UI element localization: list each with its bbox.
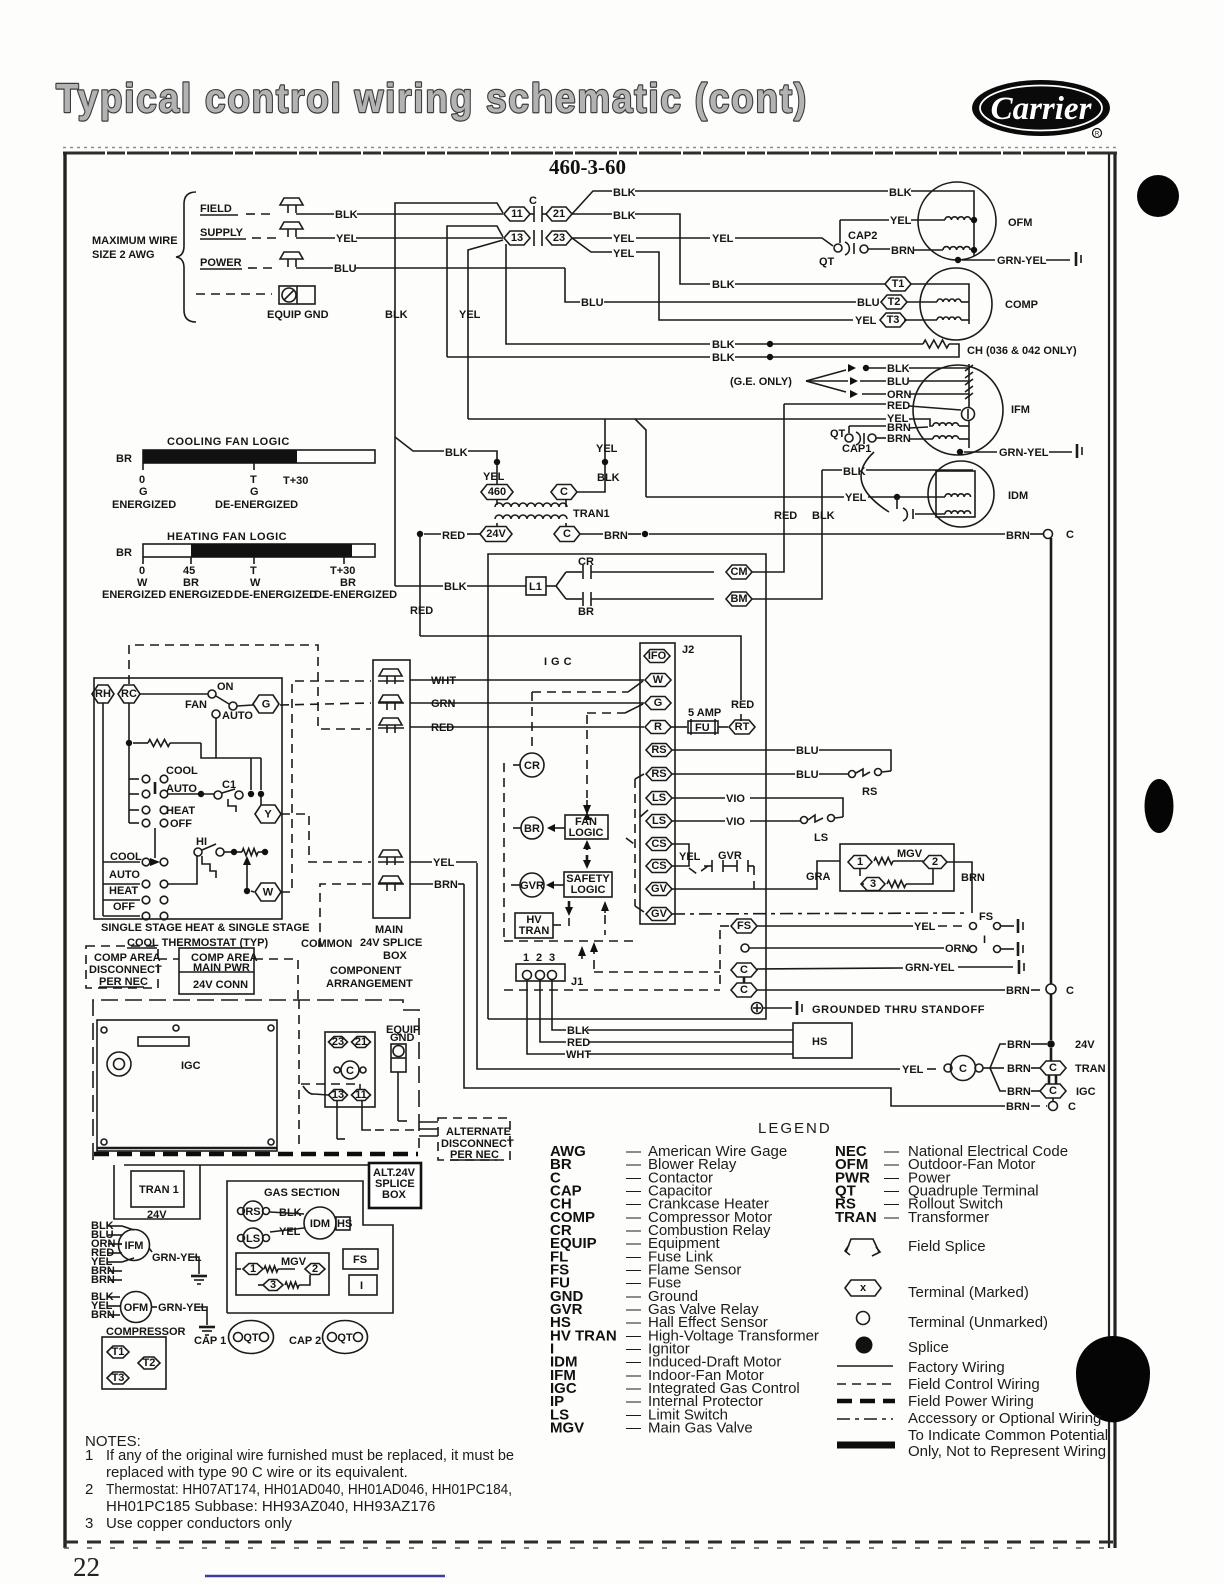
svg-text:POWER: POWER bbox=[200, 257, 242, 269]
wire GRN to G bbox=[410, 702, 644, 704]
svg-text:C: C bbox=[1066, 985, 1074, 997]
blower relay BR circle bbox=[521, 817, 543, 839]
IGC board bbox=[97, 1020, 277, 1151]
field splice SUPPLY bbox=[280, 222, 303, 229]
svg-text:MGV: MGV bbox=[281, 1256, 307, 1268]
svg-text:BLU: BLU bbox=[887, 376, 910, 388]
switch HI bbox=[194, 848, 202, 856]
svg-text:24V SPLICE: 24V SPLICE bbox=[360, 937, 422, 949]
CR lead bbox=[513, 764, 520, 766]
HV TRAN box bbox=[515, 913, 553, 938]
TRAN 1 box bbox=[131, 1171, 184, 1207]
svg-text:CR: CR bbox=[524, 760, 540, 772]
terminal C unmarked bbox=[1044, 530, 1053, 539]
svg-text:BR: BR bbox=[524, 823, 540, 835]
svg-text:GRA: GRA bbox=[806, 871, 831, 883]
wire BLU corner to T2 bbox=[565, 268, 580, 302]
COMP coil lower bbox=[937, 317, 961, 320]
OFM coil upper bbox=[945, 217, 971, 220]
J2 connector body bbox=[640, 643, 675, 924]
indoor fan motor IFM circle bbox=[913, 365, 1003, 455]
induced draft motor IDM bbox=[304, 1207, 336, 1239]
svg-text:EQUIP GND: EQUIP GND bbox=[267, 309, 329, 321]
svg-text:YEL: YEL bbox=[890, 215, 912, 227]
svg-text:C: C bbox=[563, 528, 571, 540]
compressor box bbox=[102, 1337, 166, 1389]
dashed wire to G bbox=[587, 712, 625, 714]
wire YEL out bbox=[410, 861, 432, 863]
gas valve relay GVR contacts bbox=[711, 860, 713, 872]
svg-text:BLK: BLK bbox=[445, 447, 468, 459]
svg-text:HI: HI bbox=[196, 836, 207, 848]
wire CS jumper bbox=[672, 844, 689, 866]
TRAN 1 outer bbox=[114, 1165, 200, 1219]
thermostat box bbox=[94, 678, 282, 919]
svg-text:YEL: YEL bbox=[433, 857, 455, 869]
svg-text:BLU: BLU bbox=[581, 297, 604, 309]
svg-text:GRN-YEL: GRN-YEL bbox=[999, 447, 1049, 459]
wire BLK from 21 to OFM top bbox=[572, 191, 612, 214]
wire BRN out bbox=[410, 883, 433, 885]
MGV resistor 1-2 bbox=[874, 858, 893, 865]
svg-text:Accessory or Optional Wiring: Accessory or Optional Wiring bbox=[908, 1410, 1101, 1427]
contactor terminal 13 bbox=[504, 231, 530, 245]
svg-text:CAP2: CAP2 bbox=[848, 230, 877, 242]
svg-text:SIZE 2 AWG: SIZE 2 AWG bbox=[92, 249, 155, 261]
svg-text:T+30: T+30 bbox=[330, 565, 355, 577]
selector riser bbox=[201, 743, 261, 758]
MGV terminal 2 bbox=[278, 1268, 295, 1270]
wire BLU IFM bbox=[860, 380, 886, 382]
svg-text:ON: ON bbox=[217, 681, 234, 693]
svg-text:TRAN 1: TRAN 1 bbox=[139, 1184, 179, 1196]
svg-text:CM: CM bbox=[730, 566, 747, 578]
svg-text:LS: LS bbox=[652, 792, 666, 804]
svg-text:Factory Wiring: Factory Wiring bbox=[908, 1359, 1005, 1376]
svg-text:OFM: OFM bbox=[1008, 217, 1032, 229]
svg-text:BLK: BLK bbox=[385, 309, 408, 321]
CH bracket bbox=[949, 344, 959, 357]
dashed outer bottom bbox=[504, 989, 720, 991]
field splice FIELD bbox=[280, 198, 303, 205]
splice dots C1 out bbox=[248, 791, 254, 797]
svg-text:AUTO: AUTO bbox=[222, 710, 253, 722]
wire RED to R bbox=[410, 726, 644, 728]
svg-text:T+30: T+30 bbox=[283, 475, 308, 487]
svg-text:C: C bbox=[740, 984, 748, 996]
wire BLK crankcase heater row 1 bbox=[506, 244, 710, 344]
svg-text:GVR: GVR bbox=[718, 850, 742, 862]
lower selector contacts bbox=[142, 858, 150, 866]
svg-text:ALTERNATE: ALTERNATE bbox=[446, 1126, 511, 1138]
contactor terminal 23 bbox=[546, 231, 572, 245]
crankcase heater CH resistor bbox=[923, 340, 949, 348]
terminal 21 bbox=[352, 1037, 371, 1048]
wire BLK to L1 bbox=[395, 585, 443, 587]
wire COMMON dashed bbox=[320, 884, 371, 950]
svg-text:2: 2 bbox=[536, 952, 542, 964]
svg-text:T: T bbox=[250, 474, 257, 486]
svg-text:BLK: BLK bbox=[567, 1025, 590, 1037]
svg-text:3: 3 bbox=[270, 1279, 276, 1291]
svg-text:2: 2 bbox=[85, 1481, 93, 1498]
svg-text:GAS SECTION: GAS SECTION bbox=[264, 1187, 340, 1199]
svg-text:RED: RED bbox=[774, 510, 797, 522]
svg-text:I: I bbox=[983, 934, 986, 946]
field power dashed bottom bbox=[94, 1152, 418, 1157]
svg-text:YEL: YEL bbox=[459, 309, 481, 321]
wire BRN row to C node bbox=[757, 989, 1005, 991]
IGC dashed enclosure left bbox=[503, 763, 505, 941]
svg-text:I: I bbox=[360, 1280, 363, 1292]
svg-text:BRN: BRN bbox=[1007, 1039, 1031, 1051]
splice dot bbox=[494, 459, 500, 465]
terminal RS2 bbox=[646, 768, 672, 781]
induced draft motor IDM circle bbox=[928, 461, 994, 527]
wire AUTO to HI bbox=[168, 856, 197, 884]
IGC board screws bbox=[101, 1027, 107, 1033]
wire fuse to RT bbox=[718, 726, 728, 728]
svg-text:HS: HS bbox=[812, 1036, 827, 1048]
svg-text:Use copper conductors only: Use copper conductors only bbox=[106, 1515, 292, 1532]
upper selector stubs bbox=[129, 778, 139, 780]
terminal T3 bbox=[107, 1372, 129, 1384]
OFM ground bbox=[196, 1307, 207, 1325]
svg-text:To Indicate Common Potential: To Indicate Common Potential bbox=[908, 1427, 1108, 1444]
terminal C grn-yel bbox=[731, 963, 757, 977]
svg-text:IDM: IDM bbox=[310, 1218, 330, 1230]
wire field dashes bbox=[246, 213, 276, 215]
terminal G bbox=[645, 697, 671, 710]
svg-text:BLU: BLU bbox=[334, 263, 357, 275]
svg-text:MAIN: MAIN bbox=[375, 924, 403, 936]
wire YEL supply to terminal 13 bbox=[296, 237, 335, 239]
link dash bbox=[158, 958, 179, 960]
compressor motor COMP circle bbox=[920, 268, 992, 340]
GVR lead bbox=[511, 884, 520, 886]
svg-text:G: G bbox=[250, 486, 259, 498]
wire BLK crankcase heater row 2 bbox=[447, 356, 710, 358]
svg-text:23: 23 bbox=[553, 232, 565, 244]
chassis ground FS bbox=[1017, 919, 1020, 933]
ALTERNATE DISCONNECT PER NEC box bbox=[438, 1118, 510, 1160]
arrows FAN-SAFETY bbox=[586, 843, 589, 850]
gas valve relay GVR circle bbox=[520, 873, 544, 897]
svg-text:GRN-YEL: GRN-YEL bbox=[905, 962, 955, 974]
svg-text:MGV: MGV bbox=[550, 1420, 584, 1437]
common vertical lower bbox=[1050, 994, 1053, 1040]
splice dot bbox=[767, 341, 773, 347]
svg-text:W: W bbox=[250, 577, 261, 589]
svg-text:C: C bbox=[529, 195, 537, 207]
wire to G bbox=[237, 705, 253, 706]
svg-text:T1: T1 bbox=[112, 1346, 125, 1358]
wire 13 drop bbox=[336, 1101, 338, 1139]
legend field splice symbol bbox=[845, 1239, 880, 1256]
wire MGV 2 to BRN riser bbox=[947, 862, 972, 913]
svg-text:22: 22 bbox=[73, 1552, 100, 1582]
svg-text:WHT: WHT bbox=[431, 675, 456, 687]
svg-text:YEL: YEL bbox=[336, 233, 358, 245]
svg-text:HEATING FAN LOGIC: HEATING FAN LOGIC bbox=[167, 531, 287, 543]
heat resistor bbox=[237, 851, 242, 853]
svg-text:0: 0 bbox=[139, 565, 145, 577]
svg-text:IFM: IFM bbox=[125, 1240, 144, 1252]
svg-text:RS: RS bbox=[651, 744, 666, 756]
wire YEL to CAP2 QT bbox=[735, 238, 833, 246]
L1 split bbox=[546, 585, 556, 587]
svg-text:Transformer: Transformer bbox=[908, 1209, 989, 1226]
splice dot bbox=[602, 459, 608, 465]
BR lead bbox=[513, 827, 521, 829]
svg-text:Y: Y bbox=[264, 809, 272, 821]
cool closed wedge bbox=[150, 858, 160, 866]
main 24V splice box bbox=[373, 660, 410, 918]
fan switch AUTO contact bbox=[212, 710, 220, 718]
MGV terminal 1 bbox=[236, 1268, 241, 1270]
svg-text:45: 45 bbox=[183, 565, 195, 577]
svg-text:HH01PC185 Subbase: HH93AZ040,: HH01PC185 Subbase: HH93AZ040, HH93AZ176 bbox=[106, 1498, 435, 1515]
svg-text:RED: RED bbox=[410, 605, 433, 617]
terminal 11 bbox=[352, 1090, 371, 1101]
svg-text:BLK: BLK bbox=[613, 187, 636, 199]
svg-text:GV: GV bbox=[651, 908, 668, 920]
wire T2 coil bbox=[906, 301, 937, 303]
terminal W bbox=[255, 883, 281, 901]
svg-text:3: 3 bbox=[870, 878, 876, 890]
wire WHT dashed loop to W bbox=[281, 681, 371, 892]
svg-text:Main Gas Valve: Main Gas Valve bbox=[648, 1420, 753, 1437]
svg-text:BRN: BRN bbox=[891, 245, 915, 257]
wire to MGV 2 bbox=[893, 860, 923, 862]
wire G dashed to splice box bbox=[280, 703, 371, 705]
legend accessory wiring bbox=[837, 1418, 893, 1420]
terminal C secondary bbox=[554, 527, 580, 542]
svg-text:1: 1 bbox=[857, 856, 863, 868]
svg-text:Splice: Splice bbox=[908, 1339, 949, 1356]
terminal GV2 bbox=[646, 908, 672, 921]
svg-text:RED: RED bbox=[567, 1037, 590, 1049]
svg-text:C: C bbox=[1068, 1101, 1076, 1113]
IFM location circle bbox=[119, 1230, 150, 1261]
svg-text:SINGLE STAGE HEAT & SINGLE STA: SINGLE STAGE HEAT & SINGLE STAGE bbox=[101, 922, 309, 934]
svg-text:3: 3 bbox=[85, 1515, 93, 1532]
OFM coil lower bbox=[943, 247, 970, 250]
wire BLK vertical riser x447 bbox=[447, 226, 503, 357]
terminal BM bbox=[726, 592, 752, 606]
chassis ground OFM bbox=[1075, 252, 1078, 266]
capacitor CR contact bbox=[566, 571, 582, 573]
svg-text:460-3-60: 460-3-60 bbox=[549, 155, 626, 179]
svg-text:ENERGIZED: ENERGIZED bbox=[169, 589, 233, 601]
wire T3 coil bbox=[904, 319, 937, 321]
svg-text:1: 1 bbox=[85, 1447, 93, 1464]
splice dot 24V bbox=[1047, 1040, 1055, 1048]
wire BRN from C bbox=[580, 533, 603, 535]
IGC dashed enclosure bottom bbox=[504, 940, 634, 942]
field splice GRN bbox=[379, 695, 402, 702]
wire to 460 terminal bbox=[496, 465, 498, 485]
transformer TRAN1 primary coil bbox=[496, 500, 498, 505]
legend field power wiring bbox=[837, 1399, 895, 1404]
terminal C unmarked node bbox=[1046, 984, 1056, 994]
svg-text:CAP 2: CAP 2 bbox=[289, 1335, 321, 1347]
svg-text:BLK: BLK bbox=[335, 209, 358, 221]
svg-text:GRN-YEL: GRN-YEL bbox=[158, 1302, 208, 1314]
label GRN-YEL bbox=[152, 1306, 157, 1308]
wire RC to fan switch bbox=[140, 693, 208, 695]
OFM right bus bbox=[971, 217, 977, 223]
svg-text:BRN: BRN bbox=[434, 879, 458, 891]
svg-text:C: C bbox=[1066, 529, 1074, 541]
svg-text:—: — bbox=[884, 1209, 899, 1226]
hall effect sensor HS box bbox=[793, 1023, 852, 1058]
wire power dashes bbox=[248, 267, 276, 269]
svg-text:QT: QT bbox=[830, 428, 846, 440]
MGV terminal 1 bbox=[848, 856, 872, 869]
wire ORN IFM bbox=[862, 393, 886, 395]
svg-text:13: 13 bbox=[332, 1089, 344, 1101]
MGV terminal 3 bbox=[861, 878, 885, 891]
svg-text:BLK: BLK bbox=[597, 472, 620, 484]
svg-text:COOLING FAN LOGIC: COOLING FAN LOGIC bbox=[167, 436, 290, 448]
svg-text:BLU: BLU bbox=[857, 297, 880, 309]
svg-text:LS: LS bbox=[246, 1233, 260, 1245]
svg-text:GRN-YEL: GRN-YEL bbox=[152, 1252, 202, 1264]
svg-text:OFM: OFM bbox=[124, 1302, 148, 1314]
svg-text:RT: RT bbox=[735, 721, 750, 733]
wire BRN CAP2 bbox=[868, 248, 890, 250]
wire to standoff ground bbox=[763, 1007, 792, 1009]
IFM bottom splice bbox=[957, 449, 963, 455]
svg-text:FIELD: FIELD bbox=[200, 203, 232, 215]
svg-text:ENERGIZED: ENERGIZED bbox=[112, 499, 176, 511]
svg-text:MAXIMUM WIRE: MAXIMUM WIRE bbox=[92, 235, 178, 247]
cooling bar ticks bbox=[142, 463, 144, 470]
common potential vertical bbox=[1050, 538, 1053, 984]
dashed vertical right bbox=[719, 930, 721, 990]
svg-text:COMMON: COMMON bbox=[301, 938, 352, 950]
svg-text:OFF: OFF bbox=[113, 901, 135, 913]
terminal RT bbox=[729, 720, 755, 734]
wire C to YEL riser bbox=[577, 419, 605, 492]
cooling fan logic bar bbox=[143, 450, 375, 463]
brace bbox=[176, 192, 196, 322]
svg-text:LS: LS bbox=[814, 832, 828, 844]
rollout switch RS bbox=[849, 771, 856, 778]
svg-text:HV TRAN: HV TRAN bbox=[550, 1327, 617, 1344]
svg-text:J2: J2 bbox=[682, 644, 694, 656]
contactor dashes bbox=[301, 1083, 356, 1085]
RC bus vertical bbox=[128, 703, 130, 823]
quadruple terminal QT CAP1 bbox=[848, 426, 850, 433]
scan blob top right bbox=[1137, 175, 1179, 217]
svg-text:Field Splice: Field Splice bbox=[908, 1238, 986, 1255]
svg-text:Typical control wiring schemat: Typical control wiring schematic (cont) bbox=[56, 75, 808, 121]
svg-text:RS: RS bbox=[245, 1206, 260, 1218]
IGC control box outline bbox=[488, 554, 766, 1019]
upper selector contacts bbox=[142, 775, 150, 783]
upper-lower link bbox=[154, 828, 156, 858]
svg-text:DISCONNECT: DISCONNECT bbox=[89, 964, 162, 976]
svg-text:YEL: YEL bbox=[596, 443, 618, 455]
IGC board grommet bbox=[107, 1052, 131, 1076]
cool-auto link bbox=[154, 782, 157, 794]
svg-text:HEAT: HEAT bbox=[166, 805, 195, 817]
svg-text:DE-ENERGIZED: DE-ENERGIZED bbox=[234, 589, 317, 601]
IFM coil join bbox=[959, 425, 969, 427]
svg-text:Terminal (Unmarked): Terminal (Unmarked) bbox=[908, 1314, 1048, 1331]
svg-text:CR: CR bbox=[578, 556, 594, 568]
wire VIO LS2 bbox=[672, 820, 725, 822]
C1 anticipator step bbox=[228, 799, 236, 812]
svg-text:BM: BM bbox=[730, 593, 747, 605]
comp area main pwr box bbox=[179, 948, 254, 994]
wire GRN-YEL row bbox=[757, 968, 903, 969]
svg-text:COMPONENT: COMPONENT bbox=[330, 965, 402, 977]
legend field control wiring bbox=[837, 1383, 893, 1385]
svg-text:IFM: IFM bbox=[1011, 404, 1030, 416]
wire YEL to C node bbox=[477, 863, 900, 1069]
wire BLK vertical riser x395 bbox=[395, 203, 503, 586]
wire BRN IFM row1 bbox=[849, 425, 886, 427]
solid bottom rail bbox=[124, 1164, 403, 1166]
wire BLU RS2 bbox=[672, 773, 795, 775]
capacitor C contact gap upper bbox=[533, 206, 535, 222]
IFM coil upper bbox=[933, 423, 959, 426]
J1 pins bbox=[523, 971, 532, 980]
svg-text:BR: BR bbox=[116, 547, 132, 559]
C-C link bbox=[743, 977, 746, 983]
svg-text:L1: L1 bbox=[529, 581, 542, 593]
svg-text:24V CONN: 24V CONN bbox=[193, 979, 248, 991]
terminal LS2 bbox=[646, 815, 672, 828]
wire BLK into OFM bbox=[911, 191, 974, 256]
svg-text:LEGEND: LEGEND bbox=[758, 1120, 832, 1137]
COMP right bus bbox=[961, 301, 969, 303]
terminal C brn bbox=[731, 983, 757, 997]
svg-text:C: C bbox=[959, 1063, 967, 1075]
svg-text:IGC: IGC bbox=[544, 656, 576, 668]
Carrier logo bbox=[972, 80, 1110, 138]
capacitor CAP2 oval bbox=[323, 1321, 368, 1354]
wire supply dashes bbox=[252, 237, 276, 239]
J1 connector bbox=[516, 964, 565, 981]
contactor coil C circle bbox=[944, 1064, 952, 1072]
svg-text:IGC: IGC bbox=[1076, 1086, 1096, 1098]
relay coil L1 box bbox=[526, 577, 546, 595]
svg-text:MAIN PWR: MAIN PWR bbox=[193, 962, 250, 974]
svg-text:GRN: GRN bbox=[431, 698, 456, 710]
IFM coil lower bbox=[933, 436, 959, 439]
svg-text:VIO: VIO bbox=[726, 793, 745, 805]
svg-text:Field Power Wiring: Field Power Wiring bbox=[908, 1393, 1034, 1410]
svg-text:BLK: BLK bbox=[889, 187, 912, 199]
svg-text:BR: BR bbox=[116, 453, 132, 465]
wire YEL vertical riser x468 bbox=[468, 240, 503, 419]
svg-text:BRN: BRN bbox=[961, 872, 985, 884]
component arrangement dashed outline bbox=[93, 1000, 419, 1160]
terminal G bbox=[253, 695, 279, 713]
scan blob middle right bbox=[1145, 779, 1174, 833]
svg-text:COOL: COOL bbox=[166, 765, 198, 777]
svg-text:Carrier: Carrier bbox=[991, 91, 1093, 127]
ALT 24V SPLICE BOX bbox=[369, 1163, 421, 1208]
terminal R bbox=[645, 721, 671, 734]
svg-text:COMP: COMP bbox=[1005, 299, 1038, 311]
HI anticipator step bbox=[202, 856, 216, 878]
svg-text:C: C bbox=[740, 964, 748, 976]
